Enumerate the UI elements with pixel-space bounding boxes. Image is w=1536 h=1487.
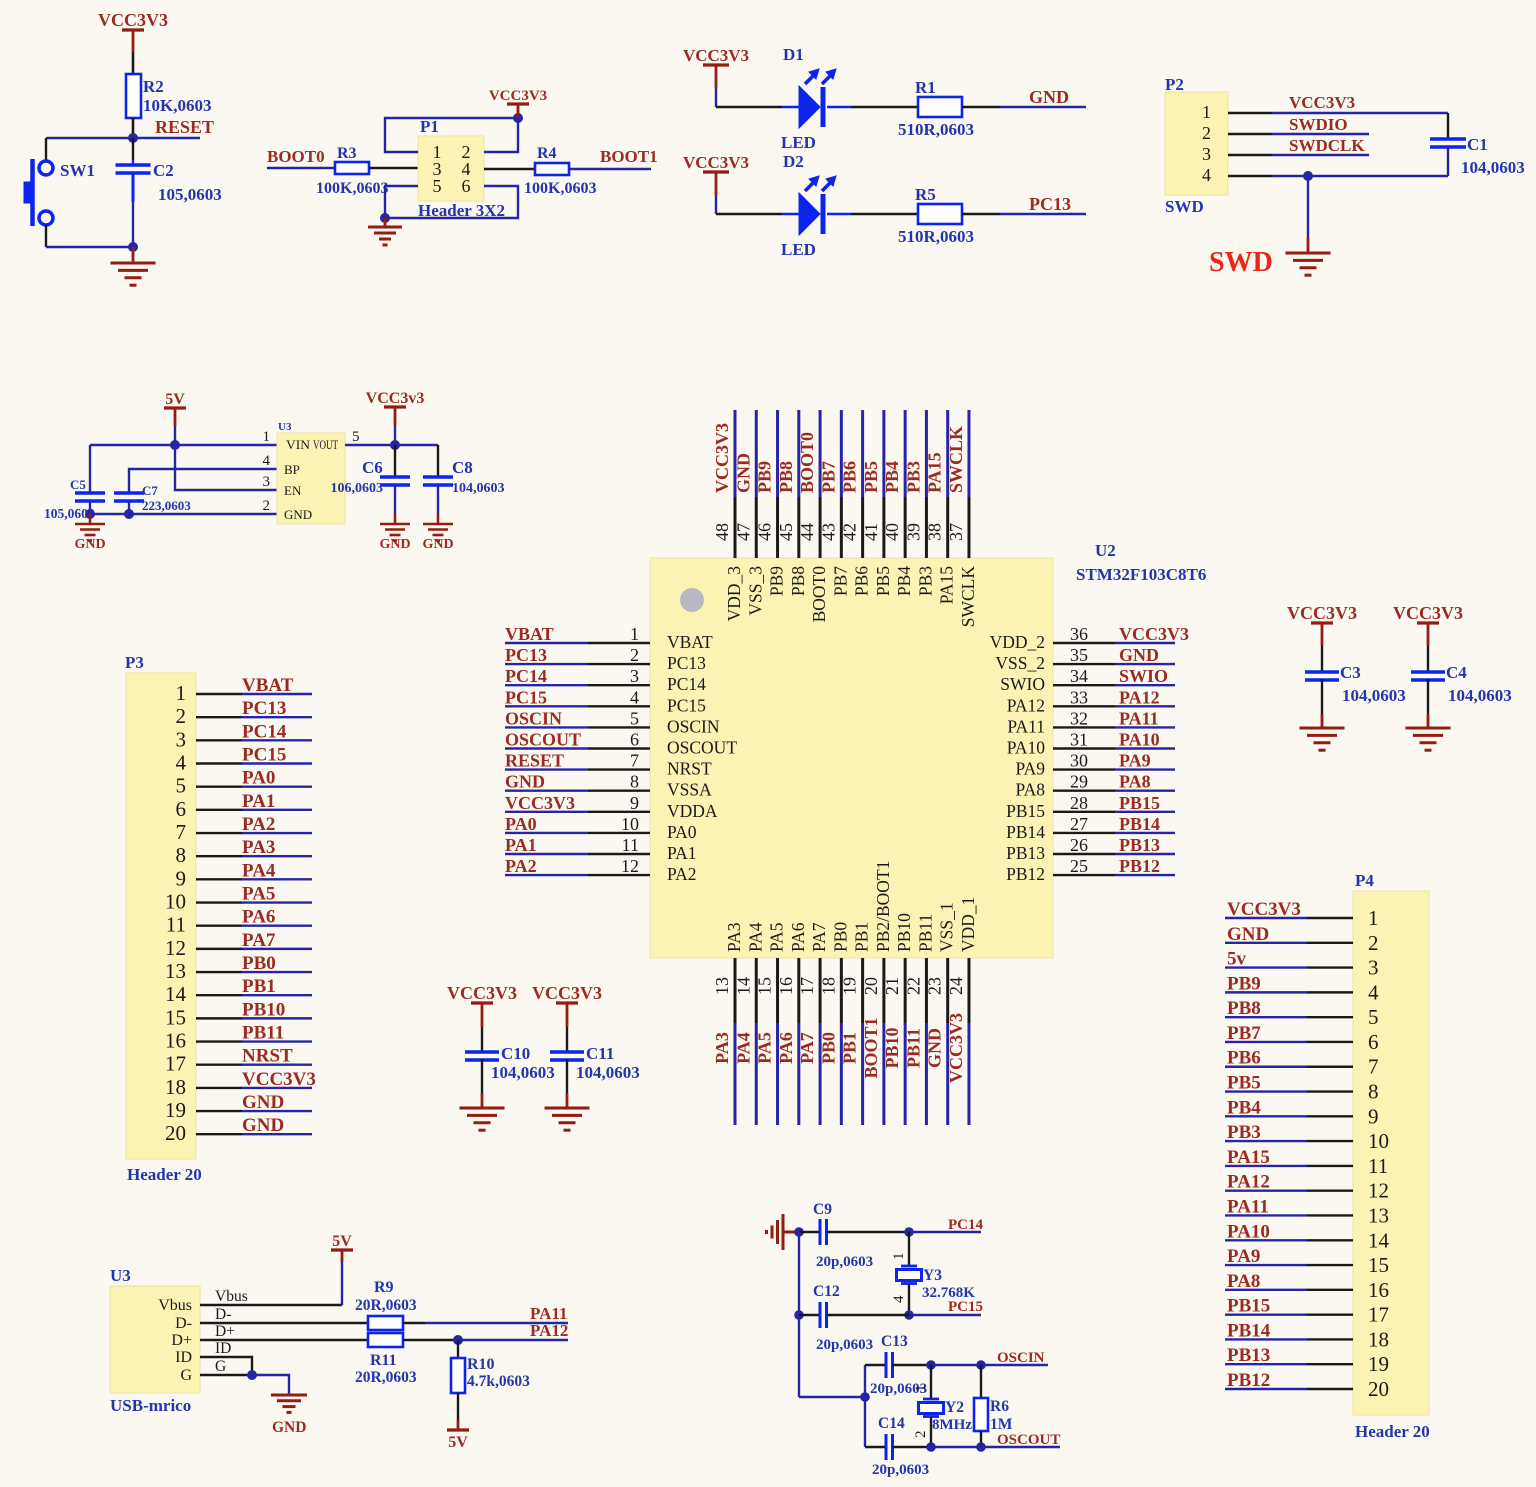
wire mcu pin 2 (505, 663, 588, 665)
svg-text:6: 6 (176, 797, 187, 821)
svg-text:GND: GND (1029, 87, 1069, 107)
svg-text:BP: BP (284, 462, 300, 477)
power VCC3V3 (C4) (1417, 621, 1439, 624)
svg-text:VCC3V3: VCC3V3 (683, 46, 749, 65)
wire mcu pin 16 (797, 958, 800, 1023)
svg-text:37: 37 (946, 523, 966, 541)
svg-text:PB0: PB0 (242, 953, 276, 974)
svg-text:PB7: PB7 (1227, 1023, 1261, 1044)
node (926, 1442, 936, 1452)
svg-text:PA2: PA2 (667, 864, 697, 884)
svg-text:6: 6 (1368, 1030, 1379, 1054)
svg-text:GND: GND (242, 1115, 284, 1136)
wire (1307, 1239, 1353, 1241)
svg-text:PA2: PA2 (505, 856, 537, 876)
svg-text:VCC3v3: VCC3v3 (366, 390, 425, 407)
wire mcu pin 21 (904, 958, 907, 1023)
wire (1307, 1016, 1353, 1018)
wire (962, 106, 1000, 108)
svg-text:2: 2 (176, 704, 187, 728)
wire (196, 1133, 242, 1135)
resistor R5 (918, 204, 962, 224)
wire (827, 1314, 909, 1316)
wire mcu pin 15 (776, 958, 779, 1023)
svg-text:24: 24 (946, 977, 966, 995)
svg-text:STM32F103C8T6: STM32F103C8T6 (1076, 565, 1206, 584)
wire mcu pin 13 (734, 958, 737, 1023)
svg-text:SW1: SW1 (60, 161, 95, 180)
resistor R4 (535, 163, 569, 175)
svg-text:5v: 5v (1227, 949, 1247, 970)
svg-text:5: 5 (1368, 1005, 1379, 1029)
node (926, 1360, 936, 1370)
svg-text:SWIO: SWIO (1000, 674, 1045, 694)
node (390, 440, 400, 450)
svg-text:PA4: PA4 (242, 860, 276, 881)
svg-text:D+: D+ (171, 1332, 192, 1349)
wire (196, 1040, 242, 1042)
svg-text:PA2: PA2 (242, 814, 275, 835)
node (794, 1227, 804, 1237)
svg-text:SWCLK: SWCLK (958, 566, 978, 628)
svg-text:VCC3V3: VCC3V3 (1393, 603, 1463, 623)
svg-text:Header 20: Header 20 (127, 1165, 202, 1184)
wire mcu pin 22 (925, 958, 928, 1023)
ground (545, 1108, 590, 1130)
svg-text:VDDA: VDDA (667, 801, 718, 821)
svg-text:PC15: PC15 (242, 745, 286, 766)
wire (930, 1365, 932, 1399)
wire (1307, 942, 1353, 944)
svg-text:R3: R3 (337, 145, 357, 162)
svg-text:BOOT1: BOOT1 (861, 1017, 881, 1078)
wire (196, 762, 242, 764)
svg-text:VCC3V3: VCC3V3 (98, 10, 168, 30)
svg-text:C12: C12 (813, 1283, 840, 1300)
svg-text:10: 10 (1368, 1129, 1389, 1153)
svg-text:8MHz: 8MHz (932, 1417, 972, 1433)
svg-text:510R,0603: 510R,0603 (898, 120, 974, 139)
svg-text:5: 5 (176, 774, 187, 798)
svg-text:Y2: Y2 (945, 1399, 964, 1416)
svg-text:C11: C11 (586, 1044, 614, 1063)
crystal Y2 (919, 1399, 944, 1417)
svg-text:3: 3 (1368, 956, 1379, 980)
svg-text:5V: 5V (448, 1434, 468, 1451)
svg-text:PA10: PA10 (1119, 730, 1160, 750)
wire (45, 225, 47, 247)
svg-text:U3: U3 (278, 421, 292, 433)
crystal Y3 (897, 1266, 922, 1284)
svg-text:10: 10 (165, 890, 186, 914)
svg-text:PB13: PB13 (1006, 843, 1045, 863)
svg-text:11: 11 (166, 913, 186, 937)
wire (403, 1322, 425, 1324)
svg-text:2: 2 (913, 1431, 929, 1439)
svg-text:6: 6 (462, 176, 471, 196)
wire (962, 213, 1000, 215)
wire pin1 to vcc (385, 118, 518, 152)
svg-text:SWD: SWD (1165, 197, 1204, 216)
svg-text:PA10: PA10 (1007, 738, 1046, 758)
svg-text:PB6: PB6 (852, 566, 872, 596)
svg-text:1: 1 (891, 1253, 907, 1261)
svg-text:PB15: PB15 (1227, 1296, 1270, 1317)
wire mcu pin 7 (505, 768, 588, 770)
svg-text:1M: 1M (990, 1416, 1013, 1433)
svg-text:PC15: PC15 (505, 687, 547, 707)
wire (569, 168, 651, 170)
wire mcu pin 32 (1053, 726, 1115, 728)
resistor R3 (335, 162, 369, 174)
svg-text:12: 12 (1368, 1179, 1389, 1203)
svg-text:1: 1 (263, 429, 271, 445)
wire (1307, 1090, 1353, 1092)
svg-text:PA7: PA7 (809, 922, 829, 952)
svg-text:104,0603: 104,0603 (1342, 686, 1406, 705)
svg-text:VCC3V3: VCC3V3 (1227, 899, 1301, 920)
node (904, 1227, 914, 1237)
node 5V junction (170, 440, 180, 450)
svg-text:38: 38 (925, 523, 945, 541)
wire (196, 855, 242, 857)
power VCC3V3 (reset circuit) (122, 28, 144, 31)
wire mcu pin 37 (967, 410, 970, 497)
wire pin2 to vcc (484, 118, 518, 152)
svg-text:GND: GND (74, 537, 105, 552)
capacitor C9 (799, 1231, 820, 1233)
svg-text:BOOT0: BOOT0 (797, 432, 817, 493)
svg-text:13: 13 (1368, 1203, 1389, 1227)
svg-text:P1: P1 (420, 117, 439, 136)
wire (132, 118, 135, 138)
svg-text:GND: GND (284, 507, 312, 522)
wire (1307, 1165, 1353, 1167)
svg-text:43: 43 (818, 523, 838, 541)
svg-text:OSCOUT: OSCOUT (505, 730, 581, 750)
svg-text:45: 45 (776, 523, 796, 541)
svg-text:PA1: PA1 (667, 843, 697, 863)
ground (380, 524, 410, 541)
svg-text:12: 12 (621, 856, 639, 876)
wire (196, 994, 242, 996)
svg-text:9: 9 (630, 793, 639, 813)
svg-text:PB13: PB13 (1227, 1345, 1270, 1366)
svg-text:PA6: PA6 (242, 907, 275, 928)
svg-text:SWDIO: SWDIO (1289, 115, 1348, 134)
wire EN (175, 445, 278, 490)
svg-text:105,0603: 105,0603 (158, 185, 222, 204)
wire (1307, 1338, 1353, 1340)
svg-text:GND: GND (925, 1028, 945, 1068)
svg-text:PB9: PB9 (755, 461, 775, 493)
wire mcu pin 30 (1053, 768, 1115, 770)
svg-text:VCC3V3: VCC3V3 (489, 88, 547, 104)
svg-text:20p,0603: 20p,0603 (872, 1462, 929, 1478)
svg-text:16: 16 (1368, 1278, 1389, 1302)
svg-text:31: 31 (1070, 730, 1088, 750)
svg-text:21: 21 (882, 977, 902, 995)
svg-text:OSCIN: OSCIN (505, 708, 562, 728)
svg-text:PB10: PB10 (894, 913, 914, 952)
svg-text:4: 4 (891, 1295, 907, 1303)
svg-text:R1: R1 (915, 78, 936, 97)
power VCC3V3 (C11) (556, 1001, 578, 1004)
wire (132, 30, 135, 52)
svg-text:PB1: PB1 (852, 922, 872, 952)
svg-text:18: 18 (165, 1075, 186, 1099)
svg-text:PB14: PB14 (1227, 1320, 1271, 1341)
svg-text:5: 5 (433, 176, 442, 196)
node ground junction (380, 213, 390, 223)
wire (196, 901, 242, 903)
wire (892, 1446, 931, 1448)
svg-text:G: G (215, 1358, 226, 1375)
svg-text:GND: GND (1227, 924, 1269, 945)
svg-text:39: 39 (903, 523, 923, 541)
svg-text:D-: D- (215, 1306, 231, 1323)
wire mcu pin 18 (840, 958, 843, 1023)
svg-text:20: 20 (165, 1121, 186, 1145)
wire mcu pin 19 (861, 958, 864, 1023)
wire mcu pin 28 (1053, 811, 1115, 813)
svg-text:PA15: PA15 (925, 452, 945, 493)
wire pin2 SWDIO (1228, 133, 1272, 135)
svg-text:PA9: PA9 (1015, 759, 1045, 779)
wire mcu pin 43 (840, 410, 843, 497)
svg-text:13: 13 (712, 977, 732, 995)
svg-text:BOOT0: BOOT0 (809, 566, 829, 623)
wire mcu pin 35 (1053, 663, 1115, 665)
resistor R1 (918, 97, 962, 117)
node (860, 1392, 870, 1402)
wire mcu pin 24 (967, 958, 970, 1023)
wire (1307, 1289, 1353, 1291)
svg-text:VCC3V3: VCC3V3 (946, 1013, 966, 1083)
svg-text:PC14: PC14 (242, 721, 287, 742)
svg-text:20: 20 (861, 977, 881, 995)
svg-text:PA15: PA15 (937, 566, 957, 605)
svg-text:PA11: PA11 (1119, 708, 1159, 728)
svg-text:1: 1 (176, 681, 187, 705)
svg-text:ID: ID (175, 1349, 192, 1366)
svg-text:PA4: PA4 (745, 922, 765, 952)
wire (715, 172, 718, 195)
svg-text:20R,0603: 20R,0603 (355, 1369, 417, 1386)
svg-text:104,0603: 104,0603 (491, 1063, 555, 1082)
svg-text:C9: C9 (813, 1201, 832, 1218)
svg-text:17: 17 (165, 1052, 186, 1076)
svg-text:D-: D- (175, 1315, 192, 1332)
svg-text:GND: GND (505, 772, 545, 792)
svg-text:4: 4 (263, 453, 271, 469)
capacitor C1 (1447, 113, 1449, 138)
svg-text:VCC3V3: VCC3V3 (1289, 93, 1355, 112)
wire mcu pin 12 (505, 874, 588, 876)
wire (1427, 679, 1429, 714)
svg-text:PB7: PB7 (830, 566, 850, 596)
svg-text:D2: D2 (783, 152, 804, 171)
svg-text:3: 3 (1202, 144, 1211, 164)
wire (1307, 1115, 1353, 1117)
wire left rail (798, 1232, 800, 1397)
svg-text:104,0603: 104,0603 (452, 481, 505, 496)
svg-text:PA8: PA8 (1119, 772, 1151, 792)
svg-text:16: 16 (776, 977, 796, 995)
wire (930, 1417, 932, 1447)
svg-text:PC13: PC13 (505, 645, 547, 665)
svg-text:18: 18 (818, 977, 838, 995)
svg-text:4: 4 (1368, 980, 1379, 1004)
svg-text:R5: R5 (915, 185, 936, 204)
svg-text:VSSA: VSSA (667, 780, 712, 800)
wire BP to C7 (129, 469, 278, 492)
svg-text:1: 1 (630, 624, 639, 644)
wire mcu pin 26 (1053, 853, 1115, 855)
wire mcu pin 10 (505, 832, 588, 834)
svg-text:PA12: PA12 (530, 1321, 568, 1340)
net OSCOUT (931, 1446, 981, 1448)
svg-text:1: 1 (1368, 906, 1379, 930)
wire (252, 1375, 289, 1394)
svg-text:VCC3V3: VCC3V3 (447, 983, 517, 1003)
svg-text:PA15: PA15 (1227, 1147, 1270, 1168)
svg-text:100K,0603: 100K,0603 (524, 180, 596, 197)
wire mcu pin 41 (882, 410, 885, 497)
node (976, 1360, 986, 1370)
svg-text:9: 9 (1368, 1104, 1379, 1128)
svg-text:8: 8 (176, 843, 187, 867)
capacitor C3 (1305, 672, 1339, 680)
svg-text:17: 17 (797, 977, 817, 995)
mcu U2 body (650, 558, 1053, 958)
svg-text:Y3: Y3 (923, 1267, 942, 1284)
wire mcu pin 44 (819, 410, 822, 497)
wire (1321, 679, 1323, 714)
wire (1307, 1041, 1353, 1043)
svg-text:PB9: PB9 (1227, 973, 1261, 994)
svg-text:14: 14 (165, 982, 187, 1006)
wire (174, 408, 177, 426)
wire (1307, 966, 1353, 968)
svg-text:R4: R4 (537, 145, 557, 162)
svg-text:46: 46 (755, 523, 775, 541)
svg-text:20: 20 (1368, 1377, 1389, 1401)
svg-text:8: 8 (630, 772, 639, 792)
svg-text:R2: R2 (143, 77, 164, 96)
wire pin6 to ground (385, 186, 518, 218)
svg-text:1: 1 (913, 1385, 929, 1393)
svg-text:20R,0603: 20R,0603 (355, 1297, 417, 1314)
svg-text:2: 2 (1202, 123, 1211, 143)
svg-text:17: 17 (1368, 1303, 1389, 1327)
power VCC3V3 (led D1) (703, 63, 729, 66)
wire (196, 1017, 242, 1019)
wire mcu pin 1 (505, 642, 588, 644)
wire (46, 137, 133, 139)
ground (271, 1395, 307, 1412)
capacitor C7 (114, 493, 144, 501)
wire mcu pin 17 (819, 958, 822, 1023)
wire (799, 1396, 865, 1398)
wire (1307, 1066, 1353, 1068)
wire VIN rail (90, 444, 278, 446)
svg-text:36: 36 (1070, 624, 1088, 644)
wire (196, 785, 242, 787)
svg-text:VOUT: VOUT (313, 437, 338, 452)
svg-text:GND: GND (422, 537, 453, 552)
svg-text:VSS_1: VSS_1 (937, 902, 957, 952)
wire (1307, 1313, 1353, 1315)
resistor R11 (368, 1333, 403, 1347)
svg-text:VCC3V3: VCC3V3 (1119, 624, 1189, 644)
wire (132, 173, 135, 202)
svg-text:44: 44 (797, 523, 817, 541)
svg-text:PB8: PB8 (1227, 998, 1261, 1019)
wire mcu pin 9 (505, 811, 588, 813)
wire (1427, 623, 1430, 645)
svg-text:VCC3V3: VCC3V3 (712, 423, 732, 493)
svg-text:PA0: PA0 (505, 814, 537, 834)
svg-text:PB11: PB11 (242, 1023, 284, 1044)
wire pin4 to ground (1228, 175, 1272, 177)
wire mcu pin 48 (734, 410, 737, 497)
svg-text:15: 15 (1368, 1253, 1389, 1277)
wire mcu pin 46 (776, 410, 779, 497)
svg-text:19: 19 (840, 977, 860, 995)
wire mcu pin 23 (946, 958, 949, 1023)
svg-text:VDD_3: VDD_3 (724, 566, 744, 622)
wire mcu pin 36 (1053, 642, 1115, 644)
svg-text:100K,0603: 100K,0603 (316, 180, 388, 197)
node (247, 1370, 257, 1380)
wire (403, 1339, 458, 1341)
svg-text:10: 10 (621, 814, 639, 834)
svg-text:PC13: PC13 (667, 653, 706, 673)
svg-text:3: 3 (176, 727, 187, 751)
svg-text:VCC3V3: VCC3V3 (532, 983, 602, 1003)
svg-text:PB12: PB12 (1227, 1370, 1270, 1391)
svg-text:GND: GND (272, 1419, 306, 1436)
svg-text:PB9: PB9 (767, 566, 787, 596)
svg-text:5V: 5V (165, 391, 185, 408)
svg-text:23: 23 (925, 977, 945, 995)
ground (423, 524, 453, 541)
svg-text:32: 32 (1070, 708, 1088, 728)
svg-text:RESET: RESET (505, 751, 564, 771)
svg-text:PB5: PB5 (1227, 1073, 1261, 1094)
svg-text:PA3: PA3 (242, 837, 275, 858)
svg-text:C7: C7 (142, 483, 158, 498)
svg-text:PC13: PC13 (242, 698, 286, 719)
svg-text:PC15: PC15 (948, 1299, 983, 1315)
svg-text:11: 11 (1368, 1154, 1388, 1178)
wire (267, 167, 335, 169)
ground (460, 1108, 505, 1130)
svg-text:PB0: PB0 (830, 922, 850, 952)
svg-text:U2: U2 (1095, 541, 1116, 560)
wire mcu pin 31 (1053, 747, 1115, 749)
svg-text:PB10: PB10 (242, 999, 285, 1020)
node (85, 509, 95, 519)
svg-text:7: 7 (1368, 1055, 1379, 1079)
svg-text:PA5: PA5 (767, 922, 787, 952)
svg-text:PB13: PB13 (1119, 835, 1160, 855)
svg-text:PA0: PA0 (667, 822, 697, 842)
svg-text:R10: R10 (467, 1356, 495, 1373)
svg-text:15: 15 (755, 977, 775, 995)
svg-text:PB4: PB4 (1227, 1097, 1261, 1118)
